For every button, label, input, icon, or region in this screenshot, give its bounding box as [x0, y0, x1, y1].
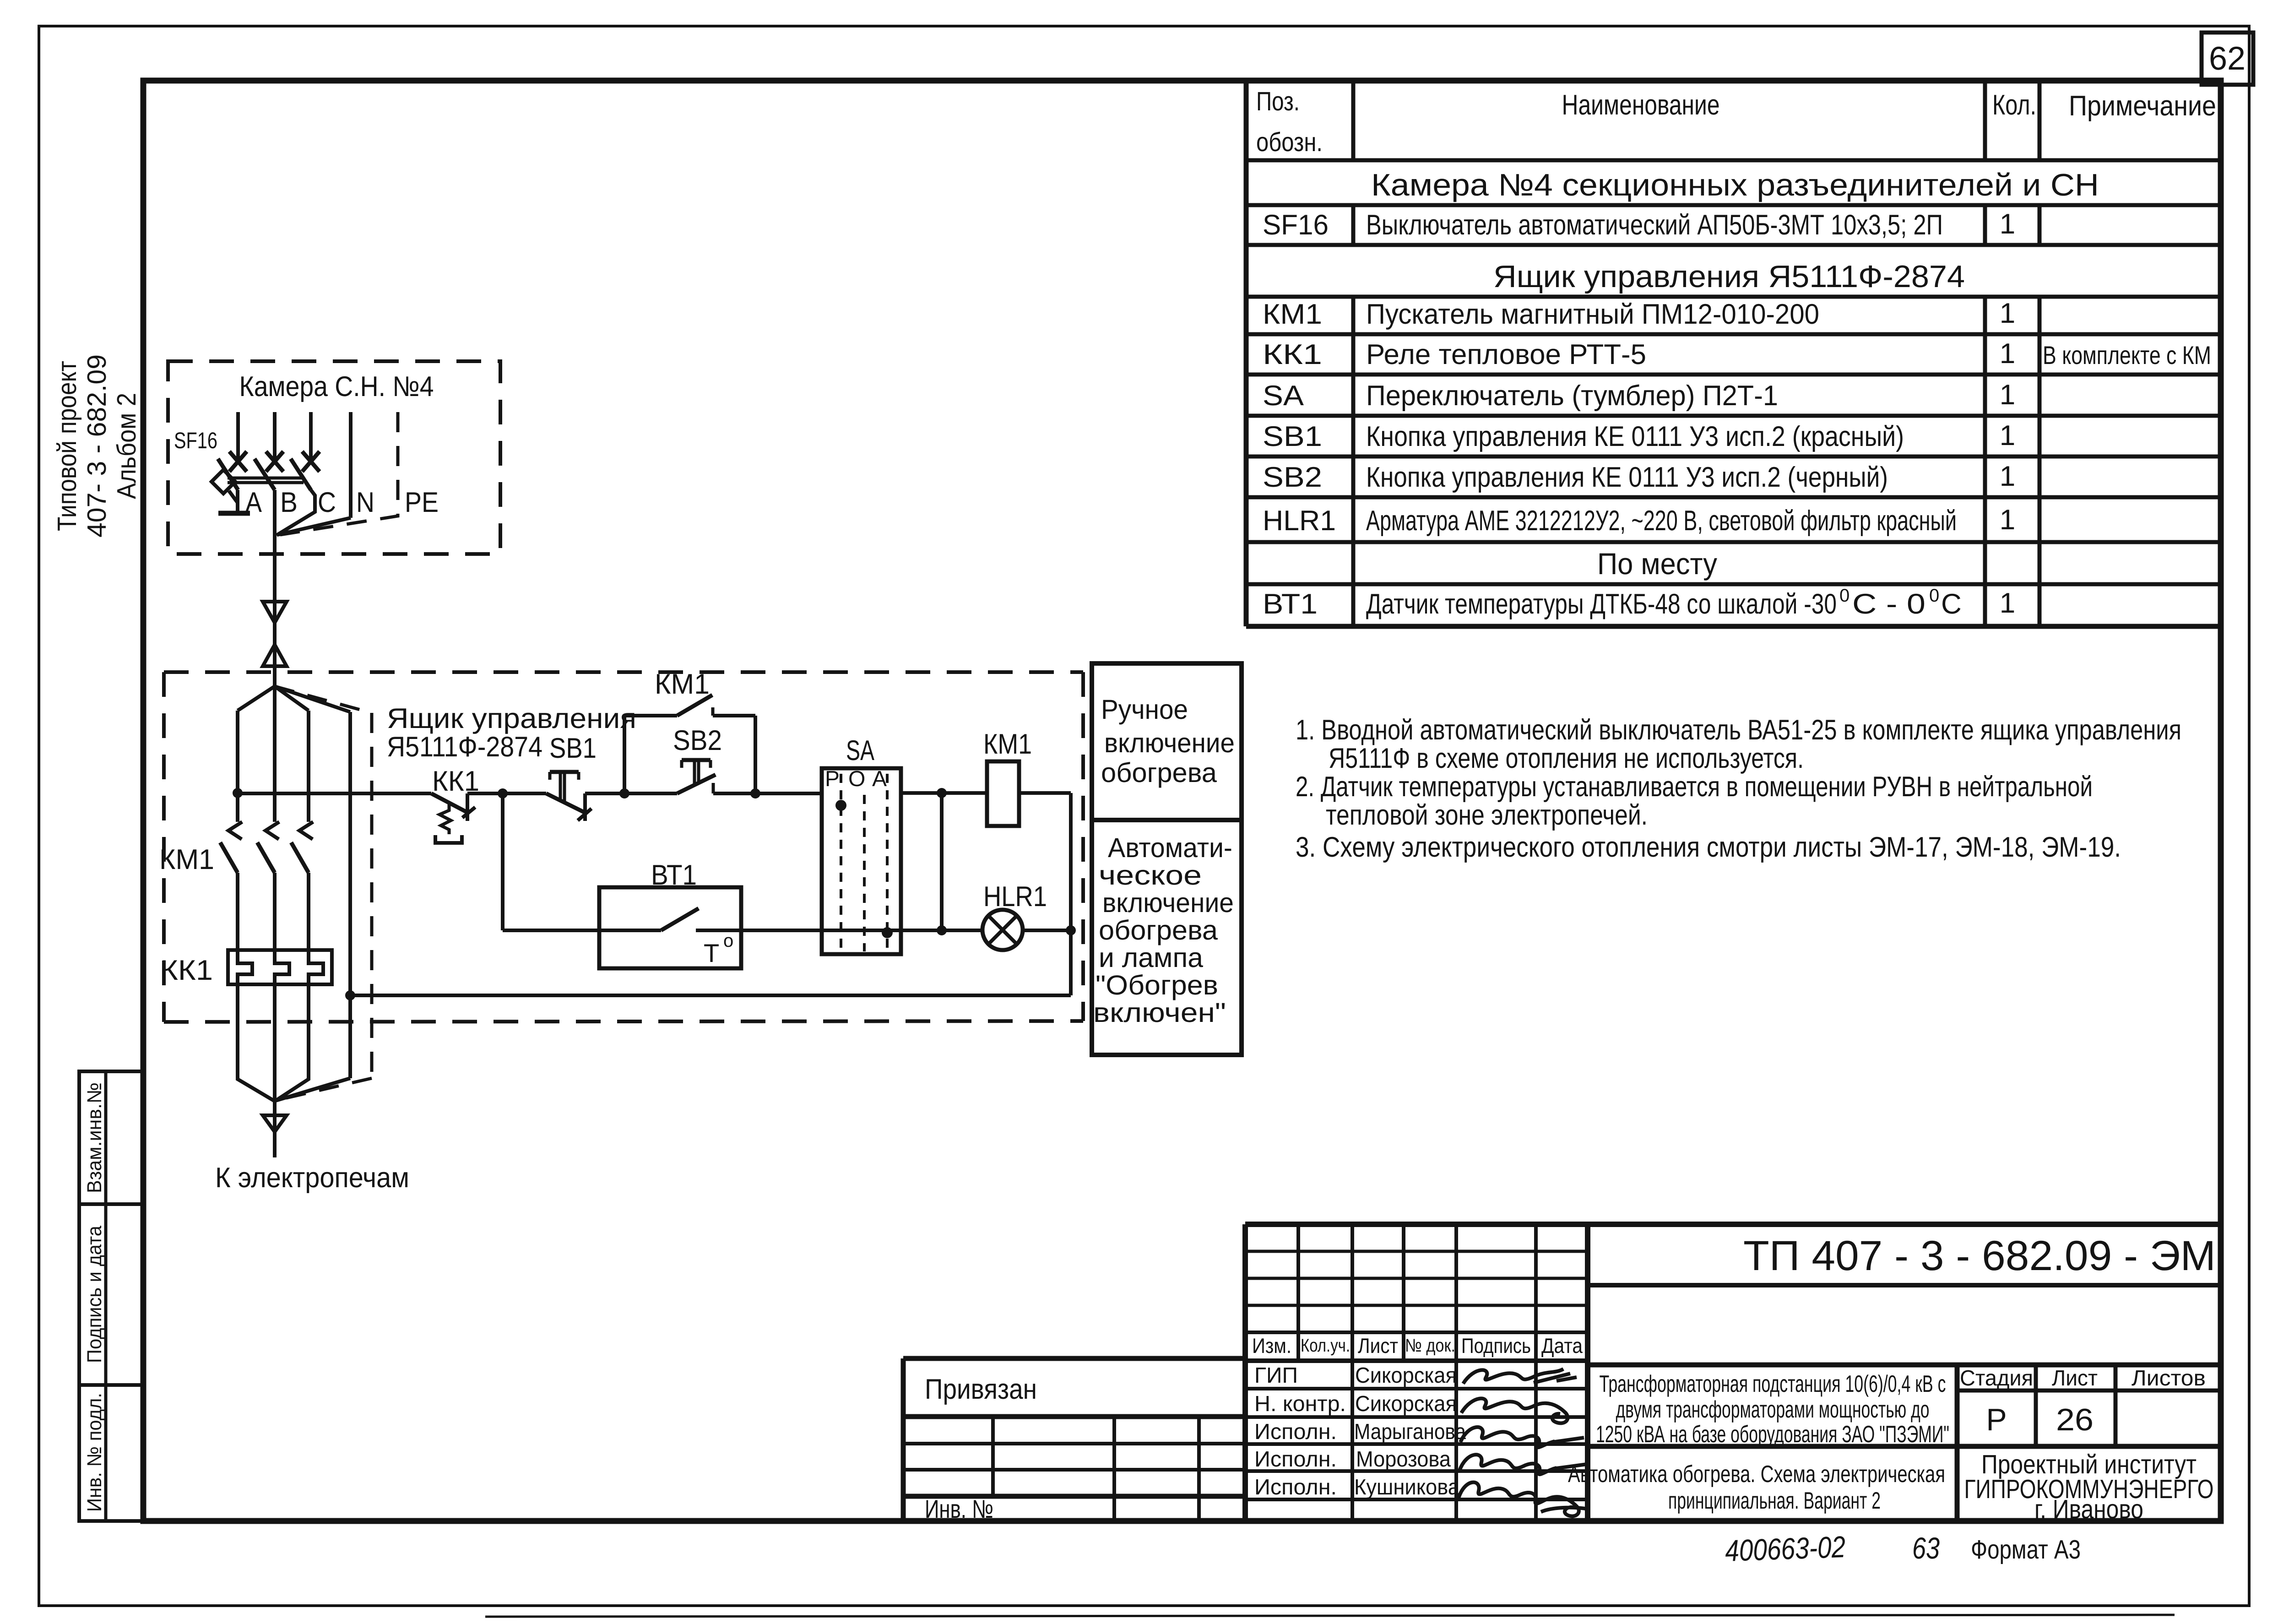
svg-text:Листов: Листов	[2132, 1366, 2206, 1390]
svg-text:Камера №4 секционных разъедини: Камера №4 секционных разъединителей и СН	[1371, 168, 2099, 202]
svg-text:1: 1	[2000, 208, 2015, 240]
svg-text:Альбом 2: Альбом 2	[112, 393, 141, 499]
svg-text:Переключатель (тумблер) П2Т-1: Переключатель (тумблер) П2Т-1	[1366, 380, 1778, 412]
svg-text:Пускатель магнитный ПМ12-010-2: Пускатель магнитный ПМ12-010-200	[1366, 299, 1819, 330]
svg-text:По месту: По месту	[1597, 547, 1717, 581]
svg-text:SB2: SB2	[673, 725, 722, 756]
wire right vertical	[1069, 793, 1073, 995]
svg-text:Подпись и дата: Подпись и дата	[83, 1226, 106, 1363]
svg-text:A: A	[872, 767, 887, 791]
svg-text:Ящик управления: Ящик управления	[387, 703, 636, 734]
lamp HLR1	[982, 881, 1047, 950]
svg-text:Морозова: Морозова	[1356, 1447, 1451, 1472]
wire KK1 to SB1	[467, 792, 546, 795]
svg-text:Автоматика обогрева. Схема эле: Автоматика обогрева. Схема электрическая	[1568, 1461, 1945, 1488]
svg-text:1: 1	[2000, 298, 2015, 329]
svg-text:Стадия: Стадия	[1960, 1366, 2033, 1390]
svg-text:Марыганова: Марыганова	[1354, 1420, 1466, 1444]
signature Morozova	[1459, 1455, 1587, 1474]
svg-text:1: 1	[2000, 504, 2015, 536]
svg-text:Исполн.: Исполн.	[1254, 1420, 1337, 1444]
contactor coil KM1	[983, 728, 1032, 826]
table rows text	[1263, 168, 2211, 620]
svg-text:Взам.инв.№: Взам.инв.№	[83, 1082, 106, 1193]
svg-text:HLR1: HLR1	[1263, 505, 1336, 537]
switch SA box	[822, 735, 901, 954]
svg-text:Подпись: Подпись	[1461, 1334, 1531, 1358]
svg-text:К электропечам: К электропечам	[215, 1162, 409, 1194]
node label B	[280, 487, 298, 518]
wire C to feeder	[277, 490, 315, 535]
wire SB2 to SA	[755, 792, 822, 795]
svg-text:Примечание: Примечание	[2069, 90, 2216, 122]
signature Kushnikova	[1459, 1482, 1589, 1516]
connector female	[263, 602, 287, 623]
svg-text:A: A	[245, 487, 262, 518]
svg-text:0: 0	[1839, 586, 1850, 606]
svg-text:Камера С.Н. №4: Камера С.Н. №4	[239, 371, 434, 402]
dashed enclosure Kamera S.N. No4	[168, 361, 500, 554]
svg-text:B: B	[280, 487, 298, 518]
title block header row texts	[1252, 1334, 1583, 1358]
institute name	[1964, 1450, 2214, 1524]
svg-text:Изм.: Изм.	[1252, 1334, 1291, 1358]
wire bottom return	[350, 994, 1071, 997]
svg-text:Датчик температуры ДТКБ-48 со: Датчик температуры ДТКБ-48 со шкалой -30	[1366, 588, 1837, 620]
svg-text:400663-02: 400663-02	[1725, 1530, 1846, 1568]
svg-text:Сикорская: Сикорская	[1355, 1392, 1457, 1416]
stamp box Inv. No podl.	[79, 1385, 143, 1521]
circuit breaker SF16	[174, 428, 320, 513]
scan artifact line bottom	[485, 1615, 2175, 1617]
connector male	[263, 645, 287, 666]
svg-text:Привязан: Привязан	[925, 1374, 1037, 1405]
svg-text:Кнопка управления КЕ 0111 У3 и: Кнопка управления КЕ 0111 У3 исп.2 (черн…	[1366, 462, 1888, 493]
svg-text:Р: Р	[1986, 1402, 2007, 1437]
svg-text:Я5111Ф-2874: Я5111Ф-2874	[387, 731, 542, 763]
title block right section	[1588, 1285, 2221, 1521]
vertical project label Tipovoy proekt 407-3-682.09 Albom 2	[52, 354, 141, 538]
junction tap phase A	[233, 788, 243, 798]
svg-text:Исполн.: Исполн.	[1254, 1475, 1337, 1499]
wire control tap	[238, 792, 431, 795]
junction N to control	[345, 990, 355, 1000]
svg-text:Кол.: Кол.	[1992, 89, 2036, 121]
svg-text:1: 1	[2000, 587, 2015, 619]
svg-text:1250 кВА на базе оборудования: 1250 кВА на базе оборудования ЗАО "ПЗЭМИ…	[1596, 1421, 1949, 1448]
signature N.kontr	[1461, 1398, 1567, 1423]
svg-text:2. Датчик температуры устанавл: 2. Датчик температуры устанавливается в …	[1296, 771, 2093, 803]
project description	[1596, 1371, 1949, 1448]
junction lamp branch	[937, 925, 947, 935]
wire phase B top	[273, 412, 277, 462]
junction SB2 parallel	[619, 788, 629, 798]
pushbutton SB2 NO	[624, 725, 755, 793]
table header texts	[1256, 87, 2216, 157]
svg-text:Арматура АМЕ 3212212У2, ~220 В: Арматура АМЕ 3212212У2, ~220 В, световой…	[1366, 505, 1957, 537]
svg-text:SF16: SF16	[1263, 209, 1329, 241]
svg-text:Кнопка управления КЕ 0111 У3 и: Кнопка управления КЕ 0111 У3 исп.2 (крас…	[1366, 421, 1904, 452]
svg-text:ТП 407 - 3 - 682.09 - ЭМ: ТП 407 - 3 - 682.09 - ЭМ	[1743, 1233, 2216, 1279]
svg-text:Инв. №: Инв. №	[925, 1494, 993, 1523]
wire PE dashed	[280, 412, 398, 535]
svg-text:Ручное: Ручное	[1101, 694, 1188, 725]
svg-text:ВТ1: ВТ1	[1263, 588, 1318, 620]
svg-text:Кушникова: Кушникова	[1354, 1475, 1459, 1499]
svg-text:Я5111Ф в схеме отопления не ис: Я5111Ф в схеме отопления не используется…	[1329, 743, 1804, 774]
contactor KM1 main contacts	[159, 822, 313, 950]
contactor KM1 aux contact	[624, 668, 755, 793]
page number box 62	[2202, 33, 2253, 85]
svg-text:КМ1: КМ1	[655, 668, 710, 700]
stamp box Podpis i data	[79, 1204, 143, 1385]
svg-text:Трансформаторная подстанция 10: Трансформаторная подстанция 10(6)/0,4 кВ…	[1600, 1371, 1946, 1397]
wire N vertical	[348, 712, 352, 1078]
svg-text:г. Иваново: г. Иваново	[2034, 1494, 2143, 1524]
svg-text:63: 63	[1912, 1531, 1940, 1565]
svg-text:Исполн.: Исполн.	[1254, 1447, 1337, 1472]
svg-text:В комплекте с КМ: В комплекте с КМ	[2043, 341, 2211, 369]
svg-text:Наименование: Наименование	[1562, 89, 1720, 121]
wire coil to right	[1019, 791, 1071, 795]
wire phase C top	[309, 412, 313, 462]
wire N top	[349, 412, 353, 518]
svg-text:обозн.: обозн.	[1256, 127, 1323, 157]
svg-text:обогрева: обогрева	[1099, 915, 1218, 945]
svg-text:Автомати-: Автомати-	[1108, 832, 1232, 863]
wire SA to coil	[901, 791, 987, 795]
svg-text:Сикорская: Сикорская	[1355, 1363, 1457, 1388]
label box automatic heating	[1092, 820, 1242, 1055]
node label C	[318, 487, 336, 518]
svg-text:Ящик управления Я5111Ф-2874: Ящик управления Я5111Ф-2874	[1493, 259, 1965, 294]
title block central grid	[1245, 1224, 2221, 1521]
svg-text:Лист: Лист	[2052, 1366, 2098, 1390]
svg-text:Т: Т	[704, 939, 719, 967]
svg-text:о: о	[723, 931, 733, 951]
svg-text:ческое: ческое	[1099, 860, 1202, 891]
svg-text:КМ1: КМ1	[983, 728, 1032, 760]
junction BT1 branch	[498, 788, 508, 798]
svg-text:3. Схему электрического отопле: 3. Схему электрического отопления смотри…	[1296, 831, 2121, 863]
svg-text:O: O	[848, 767, 865, 791]
document code TP 407-3-682.09-EM	[1743, 1233, 2216, 1279]
wire PE dashed vertical	[275, 686, 372, 1100]
svg-text:0: 0	[1929, 586, 1939, 606]
svg-text:1. Вводной автоматический выкл: 1. Вводной автоматический выключатель ВА…	[1296, 714, 2181, 746]
wire SB1 to junction	[585, 792, 624, 795]
wire B to feeder	[273, 490, 277, 536]
junction lamp right	[1066, 925, 1076, 935]
svg-text:SB1: SB1	[1263, 421, 1322, 452]
wire N to feeder	[277, 518, 351, 535]
dashed enclosure control box Ya5111F-2874	[164, 672, 1083, 1022]
svg-text:№ док.: № док.	[1405, 1336, 1455, 1356]
svg-text:Н. контр.: Н. контр.	[1254, 1392, 1346, 1416]
wire phase B bottom	[273, 984, 277, 1101]
svg-text:С - 0: С - 0	[1852, 588, 1925, 620]
feeder wire down	[273, 536, 277, 686]
parts table grid	[1246, 81, 2221, 626]
svg-text:включение: включение	[1104, 728, 1235, 758]
temperature sensor BT1	[503, 793, 942, 968]
svg-text:Лист: Лист	[1358, 1334, 1398, 1358]
sheet title	[1568, 1461, 1945, 1514]
format A3 label	[1971, 1535, 2081, 1564]
junction parallel lamp	[937, 788, 947, 798]
svg-text:КК1: КК1	[160, 955, 213, 986]
title block left section Privyazan	[903, 1358, 1245, 1523]
wire N bottom diagonal	[276, 1078, 350, 1101]
handwritten inventory number	[1725, 1530, 1846, 1568]
svg-text:SF16: SF16	[174, 428, 217, 453]
notes text	[1296, 714, 2181, 863]
svg-text:включен": включен"	[1093, 997, 1226, 1028]
signature Maryganova	[1460, 1427, 1584, 1447]
svg-text:SA: SA	[1263, 380, 1304, 412]
svg-text:Типовой проект: Типовой проект	[52, 361, 82, 531]
svg-text:26: 26	[2056, 1402, 2094, 1437]
svg-text:КМ1: КМ1	[1263, 299, 1322, 330]
svg-text:62: 62	[2209, 40, 2245, 77]
svg-text:принципиальная. Вариант 2: принципиальная. Вариант 2	[1668, 1488, 1881, 1514]
thermal relay KK1 NC contact	[431, 766, 479, 843]
svg-text:С: С	[1941, 588, 1962, 620]
svg-text:"Обогрев: "Обогрев	[1096, 970, 1218, 1000]
wire phase C bottom	[276, 984, 309, 1101]
svg-text:Реле тепловое РТТ-5: Реле тепловое РТТ-5	[1366, 339, 1646, 370]
pushbutton SB1 NC	[546, 733, 597, 821]
wire fan from feeder	[238, 686, 350, 822]
svg-text:1: 1	[2000, 461, 2015, 492]
svg-text:P: P	[825, 767, 840, 791]
svg-text:Формат А3: Формат А3	[1971, 1535, 2081, 1564]
handwritten sheet 63	[1912, 1531, 1940, 1565]
node label PE	[405, 487, 439, 518]
svg-text:и лампа: и лампа	[1099, 942, 1204, 973]
junction after SB2	[750, 788, 760, 798]
feeder to furnaces	[215, 1101, 409, 1194]
svg-text:SB1: SB1	[549, 733, 597, 764]
signature GIP	[1463, 1369, 1577, 1384]
label box manual heating	[1092, 663, 1242, 820]
svg-text:Поз.: Поз.	[1256, 87, 1300, 116]
svg-text:HLR1: HLR1	[983, 881, 1047, 912]
svg-text:Дата: Дата	[1541, 1334, 1583, 1358]
svg-text:двумя трансформаторами мощност: двумя трансформаторами мощностью до	[1616, 1396, 1930, 1423]
thermal relay KK1 heaters	[160, 950, 332, 986]
wire phase A bottom	[238, 984, 275, 1101]
svg-text:Выключатель автоматический АП: Выключатель автоматический АП50Б-3МТ 10х…	[1366, 209, 1943, 241]
svg-text:включение: включение	[1102, 887, 1234, 918]
title block signature rows	[1254, 1363, 1466, 1499]
svg-text:КК1: КК1	[1263, 339, 1322, 370]
svg-text:C: C	[318, 487, 336, 518]
svg-text:ГИП: ГИП	[1254, 1363, 1298, 1388]
stage sheet header	[1960, 1366, 2206, 1437]
node label N	[356, 487, 374, 518]
wire phase A top	[236, 412, 240, 462]
svg-text:407- 3 - 682.09: 407- 3 - 682.09	[82, 354, 112, 538]
svg-text:SB2: SB2	[1263, 462, 1322, 493]
wire lamp branch vertical	[940, 793, 944, 930]
svg-text:PE: PE	[405, 487, 439, 518]
node label A	[245, 487, 262, 518]
svg-text:тепловой зоне электропечей.: тепловой зоне электропечей.	[1326, 799, 1648, 831]
svg-text:обогрева: обогрева	[1101, 757, 1217, 788]
wire lamp wires	[942, 929, 1071, 932]
svg-text:Кол.уч.: Кол.уч.	[1301, 1336, 1350, 1356]
svg-text:КМ1: КМ1	[159, 844, 214, 875]
svg-text:Инв. № подл.: Инв. № подл.	[83, 1393, 106, 1512]
svg-text:SA: SA	[846, 735, 874, 766]
svg-text:N: N	[356, 487, 374, 518]
svg-text:1: 1	[2000, 338, 2015, 369]
stamp box Vzam.inv.No	[79, 1071, 143, 1204]
svg-text:1: 1	[2000, 379, 2015, 411]
svg-text:1: 1	[2000, 420, 2015, 451]
